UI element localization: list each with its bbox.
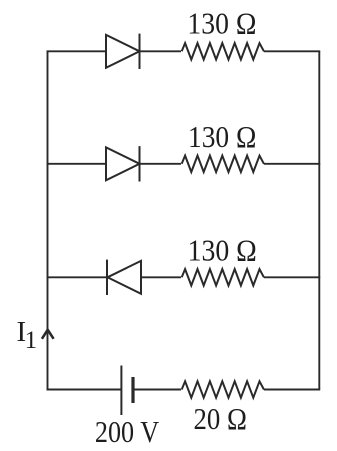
wire branch1 left — [47, 50, 107, 52]
wire right vertical — [318, 51, 320, 389]
svg-text:1: 1 — [25, 327, 37, 354]
svg-text:130 Ω: 130 Ω — [188, 233, 257, 268]
battery V1 plate long — [120, 366, 122, 416]
diode D3 (reversed) — [107, 260, 141, 295]
resistor R1 — [182, 43, 264, 59]
wire branch1 right — [264, 50, 320, 52]
wire branch3 mid — [141, 276, 181, 278]
wire branch3 left — [47, 276, 108, 278]
wire bottom right — [264, 389, 320, 391]
wire branch2 right — [264, 163, 320, 165]
wire battery to R4 — [133, 389, 181, 391]
resistor R2 — [182, 156, 264, 172]
svg-text:20 Ω: 20 Ω — [194, 401, 247, 436]
wire left vertical — [47, 51, 49, 389]
wire bottom left — [47, 389, 122, 391]
wire branch2 mid — [140, 163, 182, 165]
resistor R4 — [182, 381, 264, 397]
svg-text:200 V: 200 V — [95, 414, 160, 449]
svg-text:130 Ω: 130 Ω — [187, 6, 256, 41]
resistor R3 — [182, 269, 264, 285]
svg-text:130 Ω: 130 Ω — [188, 119, 256, 154]
diode D1 — [106, 34, 140, 69]
wire branch1 mid — [140, 50, 182, 52]
battery V1 plate short — [131, 377, 134, 403]
diode D2 — [106, 146, 140, 181]
wire branch3 right — [264, 276, 320, 278]
wire branch2 left — [47, 163, 107, 165]
arrow I1 direction — [42, 330, 54, 339]
